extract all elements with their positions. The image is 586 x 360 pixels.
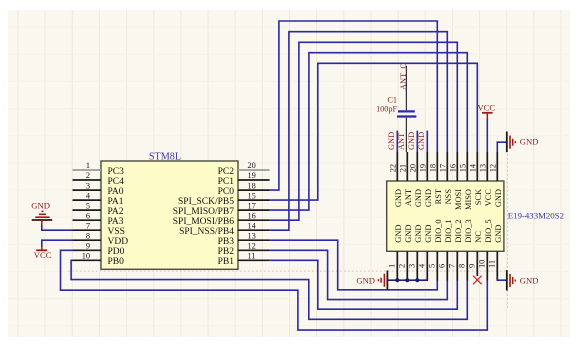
svg-text:GND: GND [494,189,503,207]
svg-text:GND: GND [520,136,539,146]
svg-text:19: 19 [248,171,256,180]
svg-text:10: 10 [82,252,90,261]
svg-text:PD0: PD0 [108,247,125,257]
svg-text:SPI_MISO/PB7: SPI_MISO/PB7 [173,207,234,217]
svg-text:100pF: 100pF [376,104,397,113]
junction pin 3 [415,278,419,282]
svg-text:SCK: SCK [474,189,483,205]
svg-text:15: 15 [248,191,256,200]
svg-text:8: 8 [458,264,467,268]
svg-text:GND: GND [494,225,503,243]
svg-text:GND: GND [407,132,416,150]
svg-text:GND: GND [414,189,423,207]
svg-text:PC1: PC1 [218,177,235,187]
svg-text:DIO_2: DIO_2 [454,219,463,242]
E19 top pin 22 lead [396,152,398,181]
svg-text:SPI_MOSI/PB6: SPI_MOSI/PB6 [173,217,234,227]
svg-text:19: 19 [418,164,427,172]
wire PB2 (pin 12) to E19 DIO_1 (pin 6) [270,250,448,299]
E19 bottom pin 9 (NC) lead [476,251,478,276]
svg-text:VSS: VSS [108,227,125,237]
wire PD0 (pin 9) to E19 DIO_5 (pin 10) [61,250,488,330]
E19 bottom pin 1 lead [396,251,398,281]
svg-text:17: 17 [248,201,256,210]
pin 16 (SPI_MOSI/PB6) right lead [238,219,270,221]
wire MISO: STM8L to E19 [270,53,468,210]
svg-text:PC0: PC0 [218,187,235,197]
svg-text:18: 18 [248,181,256,190]
svg-text:GND: GND [387,132,396,150]
svg-text:1: 1 [388,264,397,268]
wire stub pin 20 [416,131,418,152]
pin 17 (SPI_MISO/PB7) right lead [238,209,270,211]
svg-text:ANT_O: ANT_O [399,63,408,90]
svg-text:5: 5 [428,264,437,268]
wire SCK: STM8L to E19 [270,63,478,200]
svg-text:VCC: VCC [34,250,52,260]
svg-text:PA2: PA2 [108,207,124,217]
svg-text:C1: C1 [387,96,397,105]
pin 20 (PC2) right lead [238,169,270,171]
IC U? STM8L body [101,161,238,269]
E19 top pin 16 lead [456,152,458,181]
svg-text:ANT: ANT [397,133,406,150]
pin 18 (PC0) right lead [238,189,270,191]
svg-text:5: 5 [86,201,90,210]
svg-text:16: 16 [248,211,256,220]
svg-text:GND: GND [394,189,403,207]
svg-text:12: 12 [248,242,256,251]
svg-text:PA1: PA1 [108,197,124,207]
svg-text:21: 21 [398,164,407,172]
pin 3 (PA0) left lead [73,189,102,191]
svg-text:PC3: PC3 [108,167,125,177]
pin 15 (SPI_SCK/PB5) right lead [238,199,270,201]
svg-text:9: 9 [468,264,477,268]
svg-text:VDD: VDD [108,237,129,247]
wire PB0 (pin 10) to E19 DIO_3 (pin 8) [71,260,467,319]
svg-text:E19-433M20S2: E19-433M20S2 [508,211,564,221]
E19 bottom pin 5 lead [436,251,438,281]
svg-text:DIO_1: DIO_1 [444,219,453,242]
wire RST: STM8L to E19 [270,21,438,190]
svg-text:ANT: ANT [404,189,413,206]
svg-text:GND: GND [356,275,375,285]
wire E19 pin 12 to GND [497,142,507,152]
svg-text:GND: GND [424,225,433,243]
pin 10 (PB0) left lead [73,259,102,261]
svg-text:1: 1 [86,161,90,170]
power port GND (left) [31,201,52,226]
pin 14 (SPI_NSS/PB4) right lead [238,229,270,231]
svg-text:16: 16 [448,164,457,172]
svg-text:2: 2 [86,171,90,180]
power port GND (below E19 pins 1-4) [356,271,387,291]
pin 6 (PA3) left lead [73,219,102,221]
wire VDD pin 8 to VCC [42,240,73,246]
svg-text:GND: GND [31,201,50,211]
wire stub pin 19 [426,131,428,152]
E19 bottom pin 8 lead [466,251,468,281]
svg-text:8: 8 [86,231,90,240]
wire PB3 (pin 13) to E19 DIO_0 (pin 5) [270,240,438,290]
pin 12 (PB2) right lead [238,249,270,251]
E19 top pin 19 lead [426,152,428,181]
power port GND (top right) [507,132,539,153]
svg-text:STM8L: STM8L [149,152,181,163]
svg-text:3: 3 [408,264,417,268]
svg-text:PC2: PC2 [218,167,235,177]
svg-text:11: 11 [488,260,497,268]
svg-text:6: 6 [438,264,447,268]
svg-text:9: 9 [86,242,90,251]
svg-text:PB1: PB1 [218,257,235,267]
svg-text:PB2: PB2 [218,247,235,257]
svg-text:VCC: VCC [477,102,495,112]
E19 bottom pin 2 lead [406,251,408,281]
svg-text:DIO_3: DIO_3 [464,219,473,242]
svg-text:NC: NC [474,231,483,243]
svg-text:GND: GND [424,189,433,207]
svg-text:PA3: PA3 [108,217,124,227]
E19 top pin 14 lead [476,152,478,181]
svg-text:2: 2 [398,264,407,268]
wire VCC to E19 pin 13 [486,119,488,152]
svg-text:GND: GND [414,225,423,243]
wire C1 to E19 ANT pin 21 [405,118,407,152]
svg-text:DIO_5: DIO_5 [484,219,493,242]
svg-text:SPI_SCK/PB5: SPI_SCK/PB5 [178,197,234,207]
svg-text:18: 18 [428,164,437,172]
svg-text:14: 14 [468,163,477,172]
E19 bottom pin 6 lead [446,251,448,281]
wire GND bus pins 1-4 [387,279,427,281]
junction pin 1 [395,278,399,282]
svg-text:11: 11 [248,252,256,261]
svg-text:17: 17 [438,164,447,172]
pin 9 (PD0) left lead [73,249,102,251]
E19 top pin 13 lead [486,152,488,181]
svg-text:GND: GND [520,276,539,286]
power port VCC (top right) [477,102,495,119]
svg-text:20: 20 [408,164,417,172]
pin 7 (VSS) left lead [73,229,102,231]
svg-text:NSS: NSS [444,189,453,205]
wire stub pin 22 [396,131,398,152]
pin 11 (PB1) right lead [238,259,270,261]
module E19-433M20S2 body [387,181,504,251]
pin 2 (PC4) left lead [73,179,102,181]
E19 top pin 12 lead [496,152,498,181]
svg-text:3: 3 [86,181,90,190]
wire ANT_O stub above C1 [405,66,407,111]
E19 bottom pin 3 lead [416,251,418,281]
capacitor C1 [397,111,416,116]
E19 bottom pin 11 lead [496,251,498,281]
svg-text:20: 20 [248,161,256,170]
svg-text:GND: GND [417,132,426,150]
svg-text:GND: GND [394,225,403,243]
svg-text:22: 22 [388,164,397,172]
svg-text:10: 10 [478,260,487,268]
wire PB1 (pin 11) to E19 DIO_2 (pin 7) [270,260,458,309]
svg-text:12: 12 [488,164,497,172]
svg-text:VCC: VCC [484,189,493,207]
wire GND to VSS pin 7 [42,226,73,231]
svg-text:7: 7 [86,221,90,230]
junction pin 2 [405,278,409,282]
pin 19 (PC1) right lead [238,179,270,181]
E19 top pin 15 lead [466,152,468,181]
svg-text:DIO_0: DIO_0 [434,219,443,242]
pin 1 (PC3) left lead [73,169,102,171]
wire E19 pin 11 to GND [497,279,507,282]
svg-text:PB0: PB0 [108,257,125,267]
svg-text:6: 6 [86,211,90,220]
svg-text:14: 14 [248,221,257,230]
wire MOSI: STM8L to E19 [270,42,458,220]
E19 bottom pin 7 lead [456,251,458,281]
svg-text:MOSI: MOSI [454,189,463,210]
E19 top pin 20 lead [416,152,418,181]
E19 top pin 21 lead [406,152,408,181]
svg-text:7: 7 [448,264,457,268]
pin 13 (PB3) right lead [238,239,270,241]
svg-text:GND: GND [404,225,413,243]
pin 4 (PA1) left lead [73,199,102,201]
E19 top pin 17 lead [446,152,448,181]
wire NSS: STM8L to E19 [270,32,448,231]
svg-text:MISO: MISO [464,189,473,210]
svg-text:PC4: PC4 [108,177,125,187]
svg-text:13: 13 [248,231,256,240]
svg-text:SPI_NSS/PB4: SPI_NSS/PB4 [179,227,234,237]
E19 bottom pin 10 lead [486,251,488,281]
svg-text:13: 13 [478,164,487,172]
svg-text:PA0: PA0 [108,187,124,197]
power port GND (bottom right) [507,270,539,290]
svg-text:PB3: PB3 [218,237,235,247]
svg-text:RST: RST [434,189,443,204]
E19 top pin 18 lead [436,152,438,181]
no-connect X on E19 pin 9 [473,276,482,285]
svg-text:15: 15 [458,164,467,172]
E19 bottom pin 4 lead [426,251,428,281]
pin 5 (PA2) left lead [73,209,102,211]
pin 8 (VDD) left lead [73,239,102,241]
